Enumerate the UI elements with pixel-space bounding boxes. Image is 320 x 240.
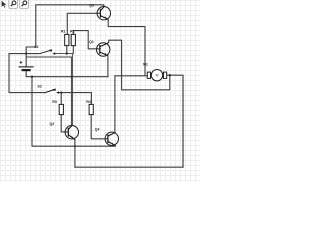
node R1 bottom on rail — [66, 52, 68, 54]
wire battery minus — [26, 71, 108, 77]
wire top rail from corner to Q3 collector — [36, 5, 104, 47]
wire left loop down to S2 row — [9, 54, 44, 93]
switch S2 — [44, 89, 59, 94]
labels — [34, 4, 148, 132]
svg-text:Q1: Q1 — [89, 40, 94, 44]
resistor R1 — [65, 34, 69, 45]
svg-text:Q4: Q4 — [95, 128, 100, 132]
wire Q1 emitter down — [107, 56, 109, 77]
wire Q3 emitter to motor left — [108, 19, 145, 76]
wire Q1 collector loop to motor right — [109, 40, 170, 90]
wire R3 top drop — [60, 93, 62, 105]
svg-text:Q3: Q3 — [89, 4, 94, 8]
resistor R2 — [71, 34, 75, 45]
wire R1 top to Q3 base — [67, 13, 100, 34]
wire battery plus second line — [26, 57, 71, 125]
wire motor left horizontal — [115, 75, 147, 77]
svg-text:M: M — [156, 74, 159, 78]
junction dots — [25, 52, 171, 147]
svg-text:S2: S2 — [38, 84, 42, 88]
svg-text:R1: R1 — [61, 30, 66, 34]
wire R2 bottom — [72, 46, 74, 54]
wire R3 bottom to Q2 base — [61, 115, 68, 132]
switch S1 — [39, 49, 55, 54]
wire R4 bottom to Q4 base — [91, 115, 108, 139]
toolbar zoom-in button — [9, 0, 18, 8]
transistor Q3 — [97, 7, 110, 20]
wire Q2 emitter down — [74, 140, 76, 168]
svg-text:R2: R2 — [70, 30, 75, 34]
resistor R4 — [89, 104, 93, 114]
wire bottom rail — [75, 166, 183, 168]
transistor Q4 — [105, 132, 118, 146]
toolbar cursor icon — [2, 1, 7, 8]
node R3 tap — [60, 91, 62, 93]
wire motor left branch down to Q4 collector — [114, 76, 116, 133]
svg-text:Q2: Q2 — [50, 122, 55, 126]
wire rail y=53.6 right of S1 contact — [54, 54, 73, 125]
wire R2 top to Q1 base — [73, 31, 100, 49]
wire minus branch down — [32, 77, 115, 147]
svg-text:R4: R4 — [86, 100, 91, 104]
battery B1 — [19, 61, 34, 70]
node motor right — [169, 74, 171, 76]
svg-text:S1: S1 — [34, 45, 38, 49]
motor M1 — [147, 70, 166, 81]
node on vertical pair — [71, 76, 73, 78]
transistor Q1 — [97, 43, 110, 57]
node emitters join — [74, 145, 76, 147]
node battery plus / rail — [25, 52, 27, 54]
node minus branch — [31, 76, 33, 78]
toolbar zoom-out button — [20, 0, 29, 8]
svg-text:R3: R3 — [52, 100, 57, 104]
transistor Q2 — [65, 126, 78, 140]
svg-text:M1: M1 — [143, 63, 148, 67]
wire S2 row right — [58, 93, 92, 105]
resistor R3 — [59, 104, 63, 114]
wire motor right to outer loop — [167, 75, 183, 167]
wire rail y=53.6 left (to S1 pivot) — [9, 53, 39, 55]
wire R1 bottom — [66, 46, 68, 54]
wire jog battery top — [26, 47, 36, 67]
